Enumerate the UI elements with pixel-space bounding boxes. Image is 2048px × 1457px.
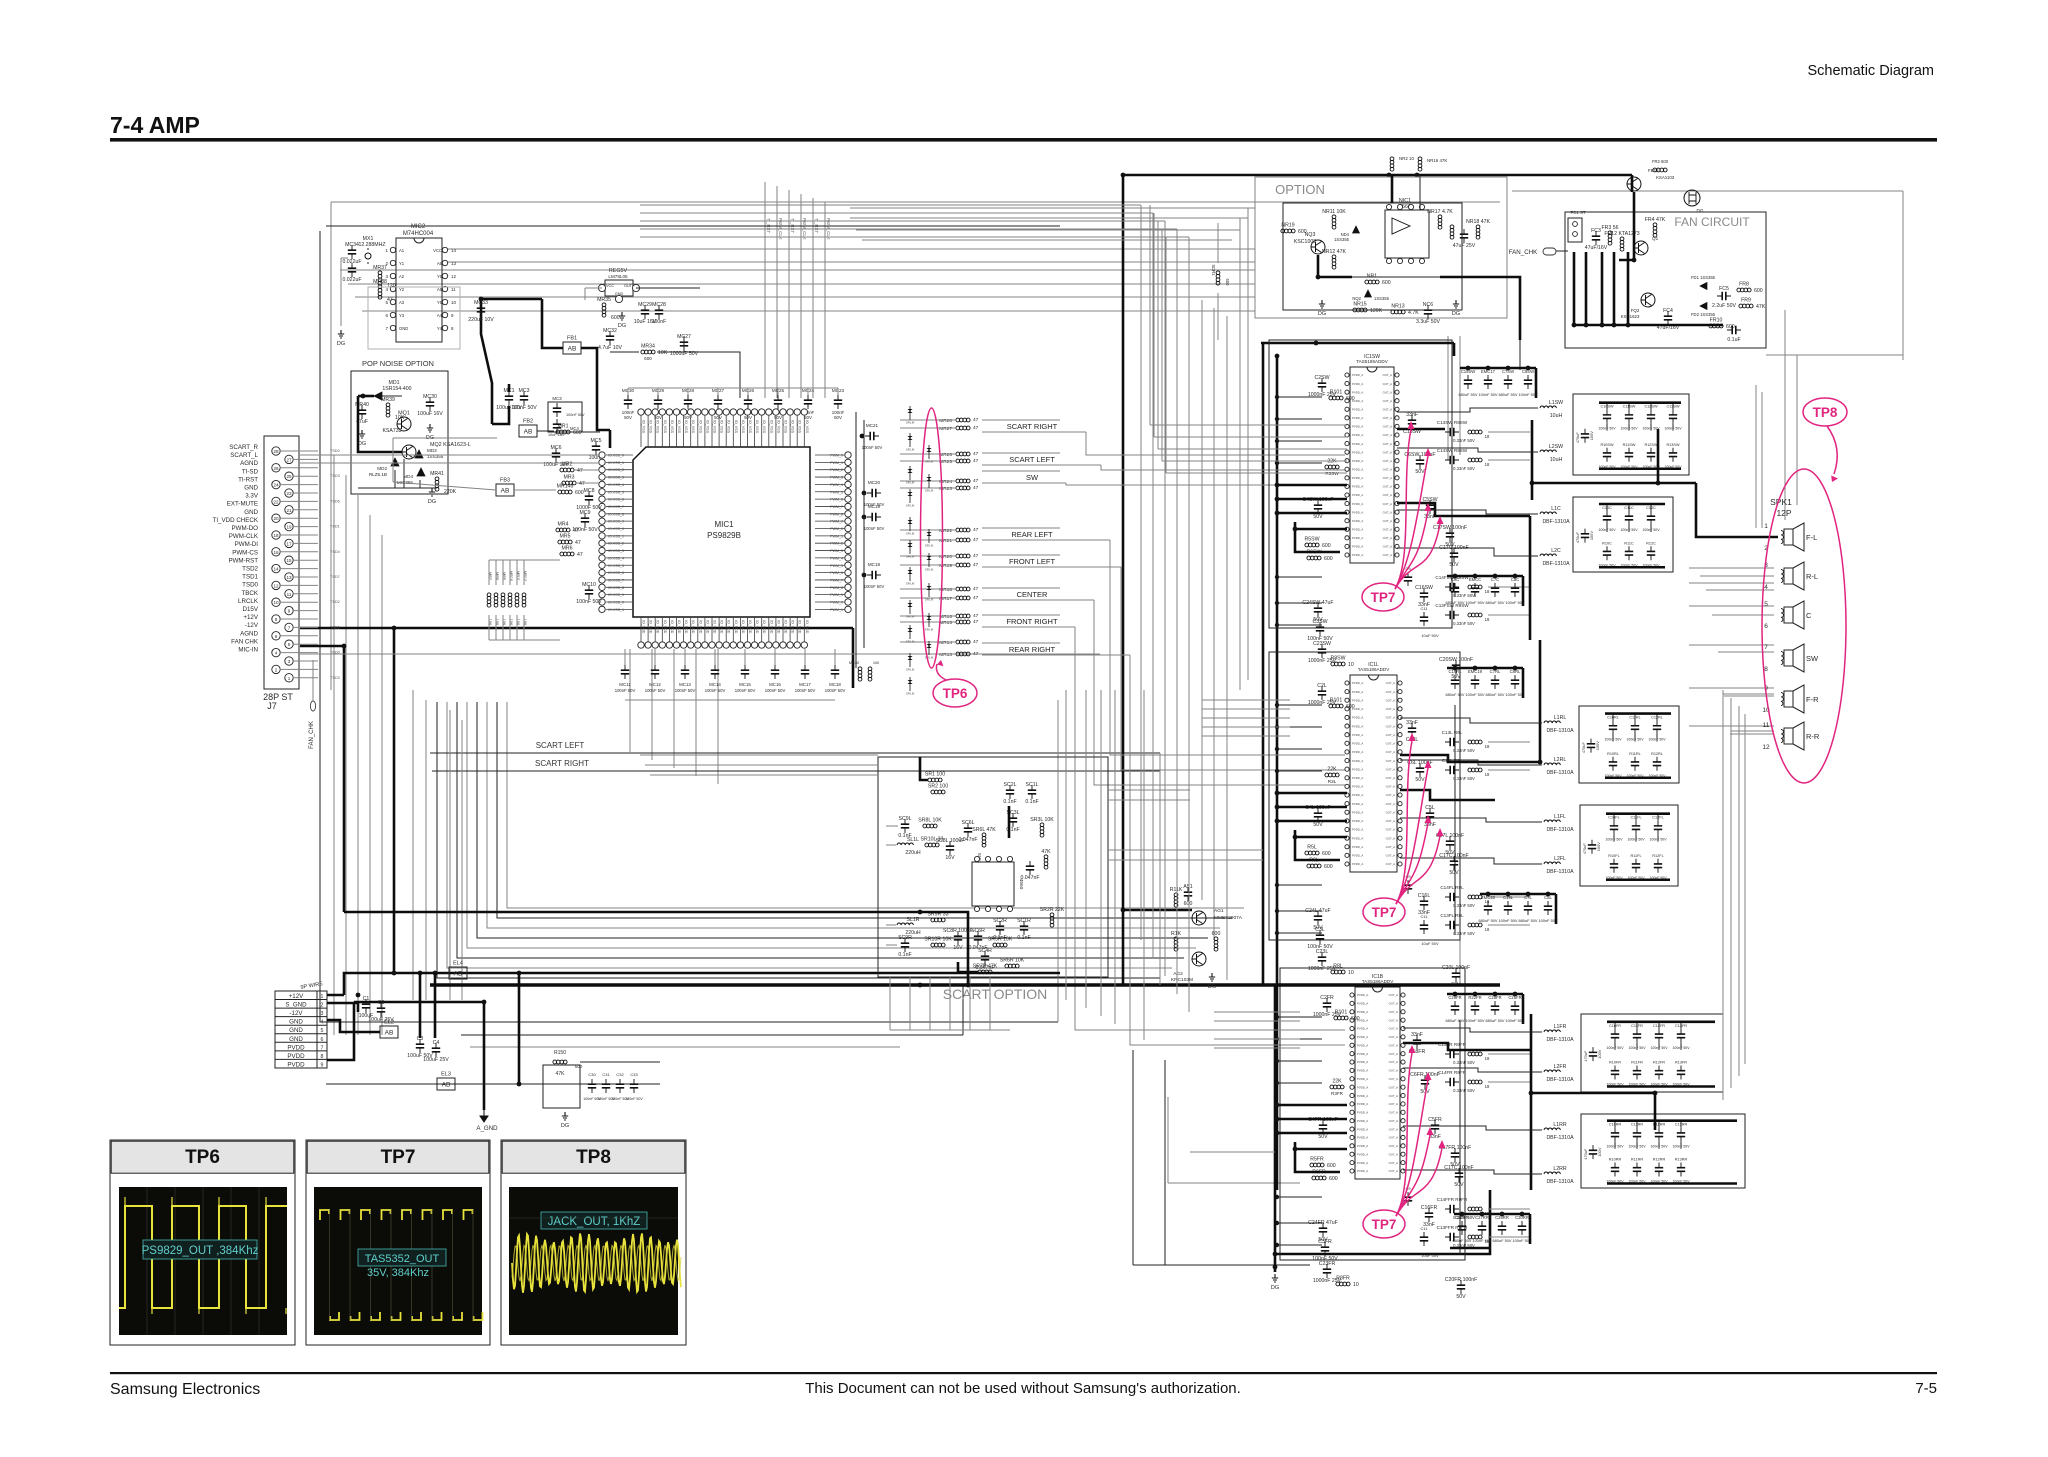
resistor NR2 xyxy=(1390,157,1394,171)
svg-text:DBF-1310A: DBF-1310A xyxy=(1546,1077,1574,1083)
svg-text:FAN_CHK: FAN_CHK xyxy=(1509,249,1538,256)
resistor SR6R xyxy=(1000,958,1025,968)
testpoint TP8 highlight ellipse xyxy=(1762,469,1846,783)
svg-text:SRLM: SRLM xyxy=(906,615,915,619)
svg-text:OUT_A: OUT_A xyxy=(1383,442,1392,446)
scope panel TP7 xyxy=(306,1140,490,1345)
svg-text:AB: AB xyxy=(524,429,533,436)
svg-text:10uF 50V: 10uF 50V xyxy=(1421,633,1439,638)
svg-text:10uF 16V: 10uF 16V xyxy=(548,433,565,437)
resistor MR5 xyxy=(558,534,581,547)
svg-text:4: 4 xyxy=(275,651,278,656)
capacitor C23SW xyxy=(1308,641,1337,664)
svg-text:600: 600 xyxy=(611,315,620,321)
svg-text:600: 600 xyxy=(644,356,652,361)
svg-text:IO_VSS: IO_VSS xyxy=(720,420,724,434)
svg-text:IO_VDD: IO_VDD xyxy=(720,620,724,634)
svg-text:A2: A2 xyxy=(399,274,405,279)
svg-text:26: 26 xyxy=(273,466,279,471)
inductor L1FL xyxy=(1544,814,1574,833)
svg-text:3.3V: 3.3V xyxy=(245,493,259,500)
capacitor C col0 xyxy=(1598,504,1616,567)
svg-text:0.047nF: 0.047nF xyxy=(958,837,977,843)
wire bold amp bus left xyxy=(1261,341,1454,1190)
svg-text:0.1nF: 0.1nF xyxy=(898,952,911,958)
svg-text:PVDD_A: PVDD_A xyxy=(1352,690,1363,694)
svg-text:+12V: +12V xyxy=(289,993,304,1000)
resistor SR8L xyxy=(918,818,942,828)
svg-text:TP7: TP7 xyxy=(1372,1217,1397,1232)
svg-text:PVDD_A: PVDD_A xyxy=(1352,836,1363,840)
transistor FQ2 xyxy=(1641,293,1655,307)
svg-text:MR14: MR14 xyxy=(939,640,952,646)
svg-text:14: 14 xyxy=(273,567,279,572)
svg-text:MC29: MC29 xyxy=(638,302,652,308)
svg-text:PVDD_A: PVDD_A xyxy=(1357,1111,1368,1115)
svg-text:FB2: FB2 xyxy=(523,419,533,425)
svg-text:OUT: OUT xyxy=(624,284,633,288)
svg-text:R11SW: R11SW xyxy=(1623,443,1636,447)
svg-text:50V: 50V xyxy=(1415,777,1425,783)
transistor MQ2 xyxy=(402,445,416,459)
svg-text:IO_VSS: IO_VSS xyxy=(748,420,752,434)
svg-text:IO_VDD: IO_VDD xyxy=(705,620,709,634)
svg-text:OUT_A: OUT_A xyxy=(1383,425,1392,429)
svg-text:Schematic Diagram: Schematic Diagram xyxy=(1807,63,1934,79)
svg-text:600: 600 xyxy=(1351,1016,1360,1022)
wire bundle OPTION to MIC1 xyxy=(765,182,831,398)
wire bold EL4 rail xyxy=(344,971,1060,995)
svg-text:OUT_A: OUT_A xyxy=(1383,407,1392,411)
svg-text:AG1: AG1 xyxy=(1214,908,1224,914)
svg-text:0.047nF: 0.047nF xyxy=(1020,875,1039,881)
svg-text:IO_VSS: IO_VSS xyxy=(691,420,695,434)
svg-text:C14FL R9L: C14FL R9L xyxy=(1440,885,1464,890)
svg-text:SRLM: SRLM xyxy=(925,568,934,572)
svg-text:TSD1: TSD1 xyxy=(330,525,340,529)
capacitor cluster C9C xyxy=(1445,574,1524,606)
svg-text:Samsung Electronics: Samsung Electronics xyxy=(110,1381,260,1398)
resistor R8FR xyxy=(1336,1276,1359,1289)
svg-text:OUT_A: OUT_A xyxy=(1389,1027,1398,1031)
svg-text:47K: 47K xyxy=(556,1071,566,1077)
svg-text:IO_VSS: IO_VSS xyxy=(727,420,731,434)
capacitor C2FR xyxy=(1313,995,1342,1018)
svg-text:MC11: MC11 xyxy=(619,682,631,687)
svg-text:EL2: EL2 xyxy=(384,1020,394,1026)
wire nq3 bold xyxy=(1316,255,1352,279)
svg-text:A51: A51 xyxy=(1183,884,1192,890)
svg-text:MC8: MC8 xyxy=(584,488,595,494)
svg-text:SW: SW xyxy=(1806,654,1819,663)
svg-text:PWM_7: PWM_7 xyxy=(830,505,843,509)
capacitor C20FR xyxy=(1445,1277,1478,1300)
svg-text:PWM-CS: PWM-CS xyxy=(232,549,258,556)
inductor SL1R xyxy=(897,917,921,936)
svg-text:PWM_0: PWM_0 xyxy=(830,601,843,605)
svg-text:SRLM: SRLM xyxy=(906,692,915,696)
svg-text:DBF-1310A: DBF-1310A xyxy=(1546,869,1574,875)
capacitor FC5 xyxy=(1712,286,1736,309)
svg-text:IO_VDD: IO_VDD xyxy=(741,620,745,634)
svg-text:J7: J7 xyxy=(267,701,277,711)
box POP NOISE OPTION xyxy=(351,359,448,494)
svg-text:PVDD_A: PVDD_A xyxy=(1352,828,1363,832)
svg-text:OUT_A: OUT_A xyxy=(1386,802,1395,806)
svg-text:600: 600 xyxy=(1382,280,1391,286)
svg-text:PVDD_A: PVDD_A xyxy=(1352,759,1363,763)
svg-text:IO.VSS_8: IO.VSS_8 xyxy=(608,512,624,516)
footer rule xyxy=(110,1372,1937,1374)
svg-text:IO_VSS: IO_VSS xyxy=(791,420,795,434)
svg-text:12P: 12P xyxy=(1776,508,1791,518)
wire grey right frame xyxy=(1448,191,1903,520)
capacitor C16FR xyxy=(1421,1205,1438,1228)
svg-text:SR2 100: SR2 100 xyxy=(928,784,948,790)
svg-text:PVDD_A: PVDD_A xyxy=(1357,1094,1368,1098)
svg-text:220K: 220K xyxy=(444,489,457,495)
svg-text:47: 47 xyxy=(973,553,979,559)
svg-text:Y4: Y4 xyxy=(437,326,443,331)
resistor FR8 xyxy=(1737,282,1763,295)
svg-text:C3: C3 xyxy=(417,1036,424,1042)
svg-text:PVDD_A: PVDD_A xyxy=(1352,382,1363,386)
svg-text:OUT_A: OUT_A xyxy=(1389,1010,1398,1014)
transistor AG2 KRC103M xyxy=(1171,931,1221,990)
resistor NR1 xyxy=(1365,274,1391,287)
svg-text:TSD5: TSD5 xyxy=(330,625,340,629)
svg-text:R11FL: R11FL xyxy=(1630,854,1641,858)
svg-text:47: 47 xyxy=(973,639,979,645)
svg-text:6: 6 xyxy=(275,634,278,639)
svg-text:100nF 50V: 100nF 50V xyxy=(795,688,816,693)
capacitor SC1R xyxy=(1017,918,1031,941)
svg-text:OUT_A: OUT_A xyxy=(1389,1060,1398,1064)
wire scart box drops xyxy=(890,977,1010,1030)
label FAN_CHK vertical xyxy=(309,660,316,749)
svg-text:R11RL: R11RL xyxy=(1629,752,1641,756)
capacitor C17bSW xyxy=(1439,545,1468,568)
svg-text:1SR154-400: 1SR154-400 xyxy=(382,386,411,392)
svg-text:PVDD_A: PVDD_A xyxy=(1352,502,1363,506)
svg-text:100V: 100V xyxy=(1597,1049,1602,1058)
svg-text:0.33nF 50V: 0.33nF 50V xyxy=(1453,1060,1475,1065)
wire fb3 net xyxy=(393,431,600,490)
svg-text:MC14: MC14 xyxy=(709,682,721,687)
svg-text:18: 18 xyxy=(1485,927,1490,932)
svg-text:C14FR R9FR: C14FR R9FR xyxy=(1438,1070,1467,1075)
svg-text:47uF 25V: 47uF 25V xyxy=(1453,243,1476,249)
svg-text:47uF/16V: 47uF/16V xyxy=(1585,245,1608,251)
svg-text:MR30: MR30 xyxy=(849,661,859,665)
capacitor FR col0 xyxy=(1606,1022,1624,1087)
capacitor C5L xyxy=(1424,805,1436,828)
capacitor C3SW xyxy=(1307,619,1333,642)
svg-text:OUT_A: OUT_A xyxy=(1383,399,1392,403)
svg-text:100nF 50V: 100nF 50V xyxy=(864,526,885,531)
svg-text:OUT_A: OUT_A xyxy=(1386,793,1395,797)
svg-text:470uF: 470uF xyxy=(1583,1148,1588,1160)
svg-text:33nF: 33nF xyxy=(1406,412,1418,418)
svg-text:IO_VDD: IO_VDD xyxy=(776,620,780,634)
svg-text:TI-RST: TI-RST xyxy=(238,476,258,483)
svg-text:100nF 50V: 100nF 50V xyxy=(645,688,666,693)
svg-text:IO_VDD: IO_VDD xyxy=(670,620,674,634)
svg-text:PVDD_A: PVDD_A xyxy=(1357,1136,1368,1140)
resistor SR7R xyxy=(1041,849,1051,869)
svg-text:SRLM: SRLM xyxy=(906,481,915,485)
svg-text:IO.VSS_3: IO.VSS_3 xyxy=(608,549,624,553)
wire bold amp3 ground bus xyxy=(1273,985,1490,1272)
svg-text:PWM_1: PWM_1 xyxy=(830,534,843,538)
svg-text:IO_VDD: IO_VDD xyxy=(727,620,731,634)
svg-text:DG: DG xyxy=(618,323,626,329)
transistor AG2 xyxy=(1192,952,1206,966)
svg-text:PWM_8: PWM_8 xyxy=(830,512,843,516)
label FAN_CHK oval xyxy=(1509,248,1568,256)
wire amp3 to LC inductors xyxy=(1403,1028,1542,1174)
svg-text:47: 47 xyxy=(575,540,581,546)
svg-text:8: 8 xyxy=(1764,666,1768,673)
resistor MR6 xyxy=(560,546,583,559)
svg-text:1SS355: 1SS355 xyxy=(1334,237,1350,242)
diode MD1 1SR154-400 xyxy=(358,380,412,400)
svg-text:A_GND: A_GND xyxy=(476,1125,498,1132)
svg-text:IO_VSS: IO_VSS xyxy=(798,420,802,434)
svg-text:OUT_A: OUT_A xyxy=(1383,416,1392,420)
svg-text:PWM_8: PWM_8 xyxy=(830,586,843,590)
wire amp bold stubs xyxy=(1275,483,1347,1136)
svg-text:DG: DG xyxy=(1271,1285,1279,1291)
svg-text:MC19: MC19 xyxy=(868,504,881,509)
svg-text:22: 22 xyxy=(273,499,279,504)
svg-text:50V: 50V xyxy=(1313,514,1323,520)
resistor SR9R xyxy=(927,912,948,922)
svg-text:28: 28 xyxy=(273,449,279,454)
svg-text:MC15: MC15 xyxy=(739,682,751,687)
svg-text:Y5: Y5 xyxy=(437,300,443,305)
resistor R3FR xyxy=(1330,1079,1344,1089)
svg-text:0.33nF 50V: 0.33nF 50V xyxy=(1453,903,1475,908)
svg-text:MR20: MR20 xyxy=(939,554,952,560)
svg-text:10uF 50V: 10uF 50V xyxy=(1421,941,1439,946)
svg-text:PVDD_A: PVDD_A xyxy=(1352,802,1363,806)
svg-text:PVDD_A: PVDD_A xyxy=(1352,845,1363,849)
svg-text:R12RL: R12RL xyxy=(1651,752,1663,756)
resistor R8SW xyxy=(1331,656,1354,669)
svg-text:100nF 50V: 100nF 50V xyxy=(615,688,636,693)
svg-text:C5L: C5L xyxy=(1425,805,1435,811)
svg-text:FR9: FR9 xyxy=(1741,298,1751,304)
svg-text:IO_VSS: IO_VSS xyxy=(698,420,702,434)
svg-text:12: 12 xyxy=(1762,744,1770,751)
wire fan bottom bus xyxy=(1572,252,1723,327)
capacitor C1pw xyxy=(359,996,374,1019)
resistor R11K xyxy=(1170,887,1183,907)
wire bold AGND rail xyxy=(300,644,1100,912)
scope panel TP6 xyxy=(110,1140,295,1345)
svg-text:MD4: MD4 xyxy=(403,474,413,479)
svg-text:IO_VSS: IO_VSS xyxy=(677,420,681,434)
capacitor FR col1 xyxy=(1628,1022,1646,1087)
svg-text:R11C: R11C xyxy=(1624,541,1634,545)
wire amp1 to LC inductors xyxy=(1397,408,1538,556)
resistor R10FR xyxy=(1334,1010,1360,1023)
svg-text:OUT_A: OUT_A xyxy=(1383,390,1392,394)
svg-text:OUT_A: OUT_A xyxy=(1383,450,1392,454)
resistor FR9 xyxy=(1739,298,1766,311)
wire left vertical nets xyxy=(334,455,462,1035)
svg-text:R12RR: R12RR xyxy=(1653,1158,1666,1162)
testpoint TP7 callout xyxy=(1363,733,1444,926)
svg-text:OUT_A: OUT_A xyxy=(1383,459,1392,463)
svg-text:TSD4: TSD4 xyxy=(330,550,340,554)
svg-text:NR19: NR19 xyxy=(1281,223,1294,229)
svg-text:47: 47 xyxy=(577,468,583,474)
svg-text:PVDD_A: PVDD_A xyxy=(1352,742,1363,746)
wire loop nets below MIC1 xyxy=(437,649,1244,978)
svg-text:IO_VDD: IO_VDD xyxy=(698,620,702,634)
svg-text:PVDD_A: PVDD_A xyxy=(1357,1010,1368,1014)
svg-text:R5FR: R5FR xyxy=(1310,1157,1324,1163)
svg-text:PVDD_A: PVDD_A xyxy=(1357,1119,1368,1123)
svg-text:D15V: D15V xyxy=(243,606,259,613)
testpoint TP6 highlight ellipse xyxy=(921,408,943,668)
resistor R150 cluster xyxy=(543,1050,660,1129)
svg-text:SR6R 10K: SR6R 10K xyxy=(1000,958,1025,964)
svg-text:100nF: 100nF xyxy=(652,319,667,325)
svg-text:R12FL: R12FL xyxy=(1652,854,1663,858)
wire grey verticals mid-left xyxy=(1202,300,1227,980)
diode ND4 1SS355 xyxy=(1334,226,1359,242)
svg-text:7-4 AMP: 7-4 AMP xyxy=(110,112,200,138)
svg-text:IO_VDD: IO_VDD xyxy=(769,620,773,634)
capacitor C6L xyxy=(1407,760,1432,783)
svg-text:IO_VSS: IO_VSS xyxy=(649,420,653,434)
capacitor C17L xyxy=(1436,833,1464,856)
svg-text:L2SW: L2SW xyxy=(1549,444,1563,450)
resistor SR6L xyxy=(972,827,996,847)
svg-text:OUT_A: OUT_A xyxy=(1386,742,1395,746)
svg-text:100nF 50V: 100nF 50V xyxy=(705,688,726,693)
svg-text:47: 47 xyxy=(973,451,979,457)
ground DG-pop2 xyxy=(426,424,434,441)
wire pop internals xyxy=(358,396,437,488)
box OPTION xyxy=(1255,177,1507,318)
svg-text:IO_VSS: IO_VSS xyxy=(663,420,667,434)
svg-text:PVDD_A: PVDD_A xyxy=(1352,553,1363,557)
svg-text:R5L: R5L xyxy=(1307,845,1317,851)
capacitor SC3L xyxy=(1006,810,1019,833)
svg-text:EL4: EL4 xyxy=(453,961,463,967)
svg-text:PVDD_A: PVDD_A xyxy=(1357,1169,1368,1173)
capacitor C13L xyxy=(1445,738,1459,746)
wire frame grey bus top xyxy=(331,202,1500,690)
svg-text:IO.VSS_8: IO.VSS_8 xyxy=(608,586,624,590)
ground DG-reg xyxy=(618,312,626,329)
svg-text:SCART LEFT: SCART LEFT xyxy=(1009,455,1055,464)
svg-text:9: 9 xyxy=(288,609,291,614)
inductor L2FL xyxy=(1544,856,1574,875)
resistor bank MR7-MR12 xyxy=(487,560,527,626)
svg-text:47: 47 xyxy=(973,417,979,423)
svg-text:FC4: FC4 xyxy=(1663,308,1673,314)
wire bold amp2 outputs xyxy=(1400,640,1542,800)
svg-text:C2SW: C2SW xyxy=(1315,375,1330,381)
svg-text:NQ2: NQ2 xyxy=(1352,296,1361,301)
svg-text:C16SW: C16SW xyxy=(1415,585,1433,591)
svg-text:C33: C33 xyxy=(630,1072,638,1077)
svg-text:GND: GND xyxy=(399,326,408,331)
svg-text:FRONT LEFT: FRONT LEFT xyxy=(1009,557,1056,566)
svg-text:IO.VSS_2: IO.VSS_2 xyxy=(608,468,624,472)
svg-text:10: 10 xyxy=(1348,662,1354,668)
svg-text:AG2: AG2 xyxy=(1173,971,1183,977)
svg-text:MIC-IN: MIC-IN xyxy=(238,647,258,654)
svg-text:10: 10 xyxy=(1353,1282,1359,1288)
resistor SR2R xyxy=(1040,907,1065,927)
svg-text:SC1L: SC1L xyxy=(1026,782,1039,788)
svg-text:MC16: MC16 xyxy=(769,682,781,687)
svg-text:FD1 1SS355: FD1 1SS355 xyxy=(1691,275,1716,280)
wire bold top rail xyxy=(1121,173,1632,178)
svg-text:OUT_A: OUT_A xyxy=(1383,373,1392,377)
svg-text:TAS5186ADDV: TAS5186ADDV xyxy=(1362,979,1395,984)
svg-text:47: 47 xyxy=(973,651,979,657)
svg-text:11: 11 xyxy=(451,287,456,292)
capacitor FC3 xyxy=(1585,228,1608,251)
svg-text:23: 23 xyxy=(286,491,292,496)
svg-text:OUT_A: OUT_A xyxy=(1389,1127,1398,1131)
svg-text:TBCK: TBCK xyxy=(241,590,258,597)
svg-text:PVDD_A: PVDD_A xyxy=(1357,1052,1368,1056)
svg-text:IO_VSS: IO_VSS xyxy=(734,420,738,434)
svg-text:TI-SD: TI-SD xyxy=(242,468,259,475)
svg-text:SPK1: SPK1 xyxy=(1770,497,1792,507)
svg-text:OUT_A: OUT_A xyxy=(1389,993,1398,997)
inductor SL1L xyxy=(897,837,921,856)
wire left mic1 nets xyxy=(489,470,599,640)
svg-text:VCC: VCC xyxy=(433,248,442,253)
svg-text:2.2uF 50V: 2.2uF 50V xyxy=(1712,303,1736,309)
svg-text:47: 47 xyxy=(973,458,979,464)
capacitor MC8 xyxy=(576,488,602,511)
wire amp2 to LC inductors xyxy=(1400,718,1542,864)
svg-text:MC13: MC13 xyxy=(679,682,691,687)
svg-text:L1C: L1C xyxy=(1551,506,1561,512)
svg-text:47K: 47K xyxy=(1756,304,1766,310)
svg-text:MR15: MR15 xyxy=(939,620,952,626)
svg-text:PVDD_A: PVDD_A xyxy=(1357,1027,1368,1031)
capacitor RL col1 xyxy=(1626,714,1644,778)
connector SPK1 12P xyxy=(1762,497,1820,751)
svg-text:KRC103M: KRC103M xyxy=(1171,977,1193,983)
ground A_GND xyxy=(476,1110,498,1132)
svg-text:16V: 16V xyxy=(945,855,955,861)
svg-text:MC18: MC18 xyxy=(829,682,841,687)
svg-text:18: 18 xyxy=(1485,772,1490,777)
wire bottom horizontals xyxy=(461,760,1460,1047)
svg-text:C32: C32 xyxy=(616,1072,624,1077)
svg-text:1SS355: 1SS355 xyxy=(1374,296,1390,301)
svg-text:MC32: MC32 xyxy=(603,328,617,334)
svg-text:IO_VSS: IO_VSS xyxy=(805,420,809,434)
svg-text:600: 600 xyxy=(1322,543,1331,549)
svg-text:Y2: Y2 xyxy=(399,287,405,292)
wire bold option drop xyxy=(1454,340,1520,370)
svg-text:C20FR 100nF: C20FR 100nF xyxy=(1445,1277,1478,1283)
svg-text:Y1: Y1 xyxy=(399,261,405,266)
